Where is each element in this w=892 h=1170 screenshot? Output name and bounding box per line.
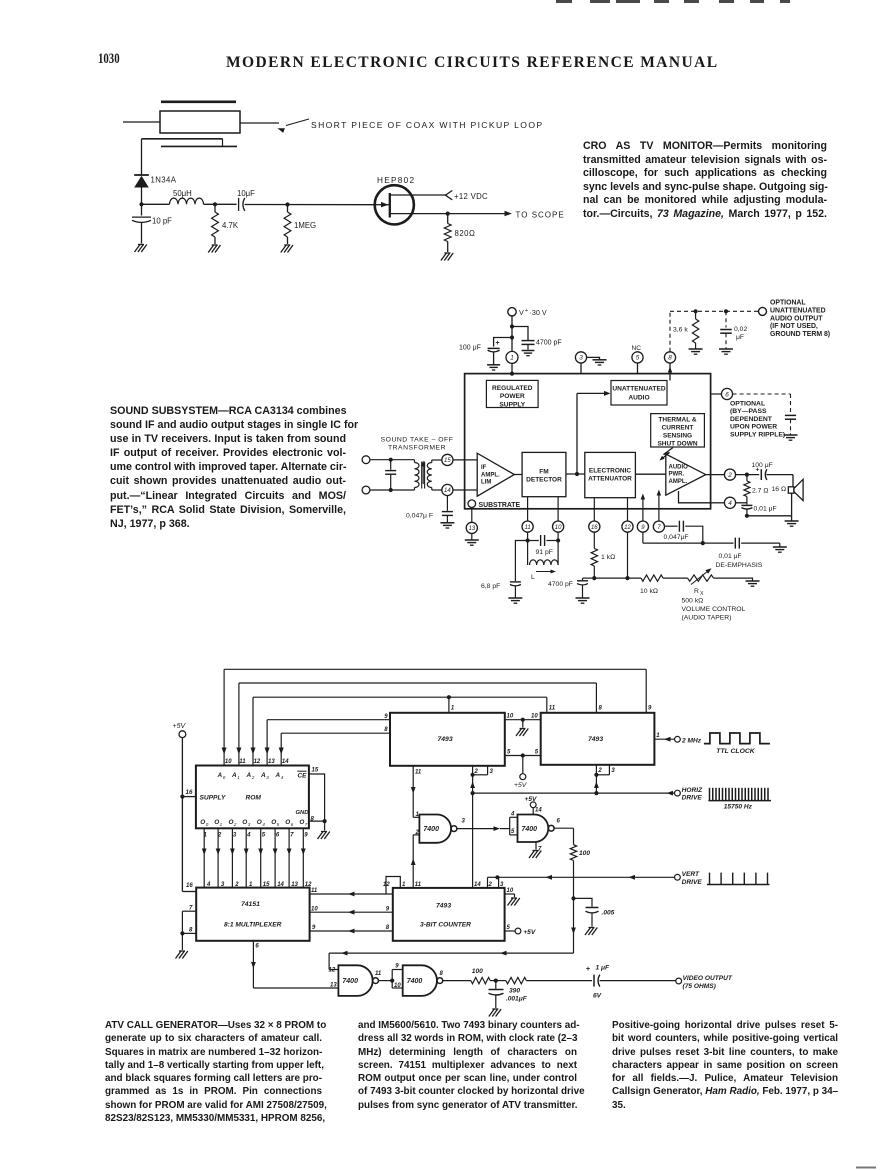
ground at pin 3 (593, 359, 607, 361)
wire attenuator to pin 16 (593, 498, 595, 521)
line counter pin 5 +5V (505, 930, 515, 932)
wire fm detector output up to unattenuated audio with arrow (576, 393, 578, 474)
inductor L1 50uH (170, 198, 204, 204)
svg-text:3: 3 (266, 775, 269, 780)
svg-text:4700 pF: 4700 pF (548, 581, 573, 588)
node horiz drive at counter1 (471, 791, 475, 795)
svg-text:1: 1 (220, 822, 223, 827)
svg-text:12: 12 (305, 882, 312, 888)
pin 10 (553, 521, 564, 532)
svg-text:12: 12 (254, 759, 261, 765)
node C junction 1MEG (285, 202, 289, 206)
capacitor 4700pF (512, 327, 528, 341)
wire junction down to strobe line (573, 898, 575, 953)
node vert drive reset (495, 875, 499, 879)
svg-text:8: 8 (386, 925, 390, 931)
wire coax braid to diode (141, 139, 143, 175)
svg-text:4: 4 (510, 811, 515, 817)
IC line counter 7493 3-bit box (393, 888, 505, 941)
svg-text:SHORT PIECE OF COAX WITH PICKU: SHORT PIECE OF COAX WITH PICKUP LOOP (311, 120, 543, 130)
input terminal lower (362, 486, 370, 494)
wire IF amp to FM detector (514, 474, 522, 476)
wire vert drive line (497, 876, 674, 878)
svg-text:(AUDIO TAPER): (AUDIO TAPER) (682, 615, 732, 622)
svg-text:UPON POWER: UPON POWER (730, 424, 777, 431)
pin 6 bypass (721, 388, 732, 399)
svg-text:8: 8 (440, 971, 444, 977)
block electronic attenuator (585, 452, 636, 497)
svg-text:5: 5 (507, 749, 511, 755)
svg-text:FM: FM (539, 469, 548, 476)
svg-text:7: 7 (290, 833, 294, 839)
ground below 100uF (487, 364, 500, 366)
svg-text:5: 5 (262, 833, 266, 839)
node input cap lower (389, 488, 393, 492)
text block: ATV caption col 3 (612, 1019, 838, 1112)
block regulated power supply (486, 380, 538, 407)
line counter feedback bracket pin 12 to pin 1 (386, 877, 400, 895)
svg-text:3: 3 (490, 769, 494, 775)
wire secondary to pin 15 (432, 459, 442, 461)
svg-text:15: 15 (312, 767, 319, 773)
svg-text:1MEG: 1MEG (294, 221, 316, 230)
node A input junction (139, 202, 143, 206)
ground below 4.7K (212, 244, 218, 246)
svg-text:9: 9 (641, 525, 645, 531)
node mux strobe (180, 931, 184, 935)
svg-text:OPTIONAL: OPTIONAL (770, 300, 806, 307)
svg-text:+5V: +5V (173, 723, 187, 730)
text block: ATV CALL GENERATOR caption col 1 (105, 1019, 322, 1125)
svg-text:5: 5 (636, 355, 640, 362)
block FM detector (522, 452, 566, 496)
potentiometer RX 500k volume control (688, 575, 714, 581)
svg-text:10 kΩ: 10 kΩ (640, 588, 658, 595)
node volume line left (592, 576, 596, 580)
svg-text:2.7 Ω: 2.7 Ω (752, 488, 768, 495)
svg-text:6: 6 (255, 944, 259, 950)
svg-text:TTL CLOCK: TTL CLOCK (716, 748, 755, 755)
wire secondary to pin 14 (432, 489, 442, 491)
svg-text:15750 Hz: 15750 Hz (724, 804, 753, 811)
resistor 390 ohm (506, 977, 527, 983)
gate U3 7400 third (338, 965, 372, 996)
svg-text:2: 2 (597, 768, 602, 774)
pin 3 ground pin (575, 352, 586, 363)
svg-text:15: 15 (444, 458, 451, 464)
ground below 6.8pF (508, 597, 522, 599)
svg-text:2: 2 (234, 882, 239, 888)
svg-text:(75 OHMS): (75 OHMS) (683, 983, 716, 990)
svg-text:0: 0 (223, 775, 226, 780)
svg-text:5: 5 (511, 829, 515, 835)
amplifier audio power triangle (666, 454, 706, 495)
svg-text:10: 10 (394, 983, 401, 989)
svg-text:6V: 6V (593, 993, 602, 1000)
address line A4 horizontal to counter1 pin 8 (281, 732, 390, 734)
svg-text:O: O (214, 819, 219, 826)
svg-text:6: 6 (276, 833, 280, 839)
node decoupling junction (571, 896, 575, 900)
svg-text:3: 3 (462, 819, 466, 825)
wire gate1 input2 down to line counter pin 11 (412, 835, 414, 888)
capacitor 0.01uF across output (746, 497, 748, 505)
svg-text:A: A (231, 772, 237, 779)
svg-text:2 MHz: 2 MHz (681, 737, 702, 744)
block unattenuated audio (611, 381, 667, 406)
svg-text:13: 13 (330, 983, 337, 989)
svg-text:5: 5 (277, 822, 280, 827)
svg-text:+: + (496, 340, 500, 347)
svg-text:0,01 μF: 0,01 μF (754, 506, 777, 513)
pin 14 (442, 484, 453, 495)
transformer T1 primary (414, 460, 416, 463)
svg-text:AMPL.: AMPL. (669, 479, 688, 485)
svg-text:10: 10 (507, 714, 514, 720)
svg-text:3: 3 (579, 355, 583, 362)
svg-text:11: 11 (311, 888, 318, 894)
svg-text:3: 3 (233, 833, 237, 839)
wire 100 ohm down crossing vert line (573, 861, 575, 899)
svg-text:11: 11 (239, 759, 246, 765)
svg-text:CURRENT: CURRENT (662, 425, 694, 432)
svg-text:9: 9 (304, 833, 308, 839)
wire FM det to pin 11 (527, 497, 529, 521)
ground after pot (746, 580, 760, 582)
terminal +5V between counters (520, 774, 526, 780)
svg-text:SUPPLY RIPPLE): SUPPLY RIPPLE) (730, 431, 785, 438)
svg-text:11: 11 (549, 706, 556, 712)
block thermal current sensing shutdown (651, 414, 705, 447)
svg-text:DEPENDENT: DEPENDENT (730, 416, 773, 423)
svg-text:O: O (285, 819, 290, 826)
svg-text:12: 12 (329, 968, 336, 974)
wire to scope with arrow (448, 213, 505, 215)
svg-text:LIM: LIM (481, 480, 491, 486)
wire de-emphasis (677, 542, 734, 544)
svg-text:820Ω: 820Ω (455, 229, 476, 238)
svg-text:4: 4 (281, 775, 284, 780)
wire select C line (309, 893, 393, 895)
svg-text:10: 10 (531, 714, 538, 720)
svg-text:7400: 7400 (407, 978, 423, 985)
node video filter (494, 979, 498, 983)
svg-text:IF: IF (481, 465, 487, 471)
wire horiz drive line (473, 792, 675, 794)
svg-text:3-BIT COUNTER: 3-BIT COUNTER (420, 922, 471, 929)
svg-text:.001μF: .001μF (506, 996, 528, 1003)
svg-text:16: 16 (591, 525, 598, 531)
capacitor 4700pF at pin 16 (583, 577, 595, 579)
svg-text:1: 1 (237, 775, 240, 780)
wire CE to GND tie (309, 774, 325, 821)
pin 16 (589, 521, 600, 532)
svg-text:SUPPLY: SUPPLY (499, 401, 525, 408)
svg-text:TRANSFORMER: TRANSFORMER (388, 445, 446, 452)
capacitor .001uF video (495, 981, 497, 989)
pin 11 (522, 521, 533, 532)
svg-text:+12 VDC: +12 VDC (454, 192, 488, 201)
wire emitter lead to output (391, 213, 448, 215)
svg-text:390: 390 (509, 987, 520, 994)
ground below 4700pF lower (576, 597, 590, 599)
pin 15 (442, 454, 453, 465)
resistor 1k ohm (593, 532, 595, 548)
svg-text:OPTIONAL: OPTIONAL (730, 401, 765, 408)
ground below 10pF (138, 244, 144, 246)
capacitor 0.047uF at pin 7 (665, 525, 678, 527)
wire horiz to line counter clock pin 14 (472, 793, 474, 888)
coax upper conductor line (161, 101, 236, 104)
wire gate1 output to gate2 (457, 828, 494, 830)
svg-text:R: R (694, 588, 699, 595)
svg-text:O: O (299, 819, 304, 826)
gate2 gnd pin 7 (535, 842, 537, 850)
IC CA3134 outline box (465, 374, 711, 509)
wire input lower (370, 489, 415, 491)
IC ROM 32x8 PROM box (196, 766, 309, 829)
transformer T1 secondary (431, 460, 433, 463)
ground mux strobe (179, 950, 185, 952)
dashed bypass wiring (733, 393, 791, 395)
substrate terminal (468, 500, 476, 508)
svg-text:0,047μF: 0,047μF (664, 534, 689, 541)
ground below 3.6k (689, 348, 703, 350)
svg-text:UNATTENUATED: UNATTENUATED (770, 307, 826, 314)
svg-text:3,6 k: 3,6 k (673, 327, 688, 334)
svg-text:SOUND TAKE – OFF: SOUND TAKE – OFF (381, 437, 454, 444)
svg-text:A: A (217, 772, 223, 779)
svg-text:8: 8 (384, 727, 388, 733)
svg-text:7: 7 (189, 905, 193, 911)
terminal +5V line counter (515, 928, 521, 934)
svg-text:(IF NOT USED,: (IF NOT USED, (770, 323, 818, 330)
svg-text:+5V: +5V (525, 796, 538, 803)
svg-text:3: 3 (611, 768, 615, 774)
svg-text:+: + (586, 966, 590, 973)
svg-text:X: X (700, 591, 704, 597)
svg-text:+5V: +5V (514, 782, 528, 789)
wire select A line (309, 930, 393, 932)
svg-text:AUDIO: AUDIO (628, 395, 649, 402)
wire coax left lead (123, 121, 160, 123)
capacitor C2 10uF coupling (238, 198, 240, 211)
capacitor .005 uF (574, 898, 593, 906)
pin 8 unattenuated audio output (664, 352, 675, 363)
svg-text:9: 9 (386, 906, 390, 912)
svg-text:7493: 7493 (438, 736, 453, 743)
waveform horiz drive pulses (708, 800, 771, 802)
wire select B line (309, 911, 393, 913)
svg-text:9: 9 (312, 925, 316, 931)
svg-text:13: 13 (268, 759, 275, 765)
terminal horiz drive (675, 790, 681, 796)
address line A1 vertical (238, 683, 240, 766)
node input cap upper (389, 458, 393, 462)
svg-text:6: 6 (725, 391, 729, 398)
node optional 0.02uF (724, 309, 728, 313)
svg-text:O: O (242, 819, 247, 826)
svg-text:100 μF: 100 μF (752, 462, 773, 469)
svg-text:0: 0 (206, 822, 209, 827)
address line A0 horizontal (224, 668, 646, 670)
wire A2 down to counter2 pin 11 (546, 697, 548, 713)
wire counter2 output pin 1 clock input (654, 738, 674, 740)
ground below 4700pF (522, 350, 535, 352)
node V+ branch 4700pF (510, 324, 514, 328)
diode D1 1N34A (134, 174, 149, 176)
address line A2 horizontal (253, 696, 547, 698)
node optional 3.6k (694, 309, 698, 313)
node D output junction (446, 212, 450, 216)
ground below 820 ohm (444, 252, 450, 254)
annotation arrow to coax (286, 119, 309, 126)
capacitor 10pF to ground (141, 204, 143, 215)
transformer core (421, 462, 423, 489)
wire pin2 to node (736, 474, 760, 476)
svg-text:7493: 7493 (588, 736, 603, 743)
wire main line segment 2 (204, 203, 237, 205)
capacitor 91pF between pins 11 and 10 (528, 540, 539, 542)
svg-text:A: A (246, 772, 252, 779)
coax pickup section body (160, 111, 240, 133)
svg-text:7400: 7400 (423, 826, 439, 833)
svg-text:4: 4 (246, 833, 251, 839)
svg-text:V: V (519, 308, 524, 317)
svg-text:11: 11 (415, 770, 422, 776)
text block: ATV caption col 2 (358, 1019, 577, 1112)
resistor 10k ohm (641, 575, 663, 581)
svg-text:13: 13 (291, 882, 298, 888)
wire GND pin 8 (309, 820, 325, 822)
wire strobe line down to gate3 input 12 (328, 953, 330, 969)
gate U2 7400 second (518, 815, 549, 843)
resistor 100 ohm pull (570, 845, 576, 861)
wire 390 to coupling cap (526, 980, 592, 982)
node output junction (745, 473, 749, 477)
svg-text:5: 5 (507, 925, 511, 931)
svg-text:AMPL.: AMPL. (481, 472, 500, 478)
inductor L quadrature coil (527, 541, 529, 566)
svg-text:SHUT DOWN: SHUT DOWN (657, 441, 697, 448)
svg-text:2: 2 (415, 830, 420, 836)
svg-text:11: 11 (375, 971, 382, 977)
wire to 390 (490, 980, 506, 982)
node +5V to ROM supply (180, 795, 184, 799)
wire main line segment 1 (142, 203, 170, 205)
wire pot to ground (714, 578, 753, 580)
wire V+ down to pin 1 (511, 316, 513, 352)
pin 4 wire from audio amp (679, 491, 711, 503)
terminal V+ 30V (508, 308, 516, 316)
scan artifact bottom right (856, 1167, 876, 1169)
line counter pin 10 ground (505, 893, 515, 895)
wire gate3 out to gate4 (378, 980, 392, 982)
wire attenuator to pin 12 (627, 498, 629, 521)
svg-text:3: 3 (248, 822, 251, 827)
capacitor bypass optional (785, 414, 796, 416)
gate4 input tie bracket (391, 970, 393, 989)
svg-text:GROUND TERM 8): GROUND TERM 8) (770, 331, 830, 338)
svg-text:.005: .005 (602, 910, 615, 917)
svg-text:TO SCOPE: TO SCOPE (516, 210, 565, 219)
ground de-emphasis (773, 546, 787, 548)
terminal clock input (675, 736, 681, 742)
terminal vert drive (675, 874, 681, 880)
capacitor 0.02uF dashed leads (725, 311, 727, 327)
gate U1 7400 first (419, 815, 451, 843)
node speaker return (745, 514, 749, 518)
svg-text:μF: μF (736, 334, 744, 341)
svg-text:0,02: 0,02 (734, 326, 747, 333)
svg-text:+: + (525, 308, 528, 314)
capacitor 0.01uF de-emphasis (734, 538, 736, 549)
wire +5V rail down to multiplexer (181, 738, 183, 892)
wire counter1 pin10 to counter2 (505, 719, 541, 721)
coax braid line lower (161, 145, 237, 147)
gate U4 7400 fourth (403, 965, 437, 996)
wire pin 12 down to volume line (627, 532, 629, 578)
svg-text:+5V: +5V (523, 929, 536, 936)
svg-text:6: 6 (557, 819, 561, 825)
svg-text:12: 12 (383, 882, 390, 888)
node counter1 reset (471, 773, 475, 777)
wire pin 10 down (557, 532, 559, 540)
terminal video output (676, 978, 682, 984)
svg-text:REGULATED: REGULATED (492, 385, 533, 392)
svg-text:4: 4 (262, 822, 265, 827)
address line A3 horizontal to counter1 pin 9 (267, 719, 390, 721)
ground speaker return (785, 520, 799, 522)
svg-text:ROM: ROM (246, 794, 262, 801)
node FM det output (575, 472, 579, 476)
svg-text:7: 7 (657, 525, 661, 531)
ground between counters (520, 728, 526, 730)
svg-text:12: 12 (624, 525, 631, 531)
svg-text:16 Ω: 16 Ω (772, 486, 787, 493)
svg-text:VOLUME CONTROL: VOLUME CONTROL (682, 606, 746, 613)
svg-text:0,01 μF: 0,01 μF (719, 553, 742, 560)
ground gate2 (533, 850, 539, 852)
svg-text:SENSING: SENSING (663, 433, 692, 440)
svg-text:14: 14 (535, 808, 542, 814)
svg-text:6: 6 (291, 822, 294, 827)
svg-text:1 kΩ: 1 kΩ (601, 554, 615, 561)
svg-text:10 pF: 10 pF (152, 217, 172, 226)
wire strobe to ground (181, 933, 183, 950)
transistor Q1 HEP802 (375, 185, 414, 224)
coax braid line upper (142, 138, 223, 140)
svg-text:4700 pF: 4700 pF (536, 340, 562, 347)
svg-text:HEP802: HEP802 (377, 176, 415, 185)
svg-text:13: 13 (468, 526, 475, 532)
address line A2 vertical (252, 697, 254, 765)
svg-text:16: 16 (186, 789, 193, 796)
wire gate4 output (443, 980, 471, 982)
svg-text:SUPPLY: SUPPLY (200, 794, 226, 801)
svg-text:7: 7 (305, 822, 308, 827)
IC counter1 7493 box (390, 713, 505, 766)
svg-text:100: 100 (472, 968, 483, 975)
IC multiplexer 74151 box (196, 888, 309, 941)
svg-text:10μF: 10μF (237, 189, 255, 198)
svg-text:1 μF: 1 μF (596, 965, 610, 972)
svg-text:DRIVE: DRIVE (682, 795, 703, 802)
svg-text:91 pF: 91 pF (536, 549, 553, 556)
ground below 0.02uF (719, 348, 733, 350)
svg-text:0,047μ F: 0,047μ F (406, 513, 433, 520)
ground .001uF (492, 1008, 498, 1010)
